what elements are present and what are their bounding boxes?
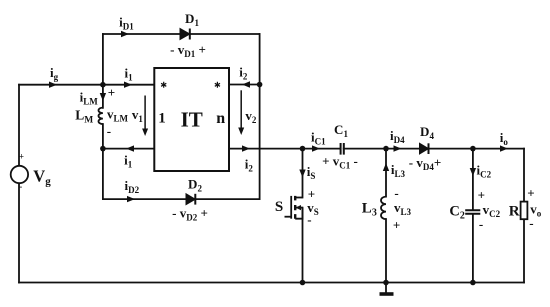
wire C2 branch [472,149,474,283]
node A junction [100,82,106,88]
svg-text:-: - [107,124,111,139]
arrow i2 bottom [242,145,250,151]
diode D2 [186,194,195,205]
source Vg [11,166,28,183]
wire left vertical bottom (Vg to bottom bus) [18,184,20,283]
arrow ig [49,82,57,88]
svg-text:n: n [216,110,225,127]
wire D2 rail [103,198,260,200]
svg-text:1: 1 [158,110,166,126]
arrow iS [299,170,305,178]
arrow iC2 [470,168,476,176]
wire top-left horizontal (ig) [19,84,154,86]
svg-text:-: - [394,186,398,201]
resistor R [521,202,528,220]
node bottom-left junction [100,146,106,152]
inductor LM coil [99,108,103,125]
transistor S (MOSFET) [285,196,303,219]
arrow i1 top [124,82,132,88]
node C2-bottom junction [470,280,476,286]
wire switch branch [302,149,304,283]
wire R branch [523,149,525,283]
arrow iC1 [312,145,320,151]
node switch-bottom junction [300,280,306,286]
wire L3 branch [385,149,387,283]
wire transformer top-right pin [229,84,260,86]
capacitor C2 [465,210,480,214]
wire right vertical x=259.6 [259,34,261,199]
node L3-top junction [383,146,389,152]
diode D1 [180,29,190,40]
wire bottom bus [19,282,524,284]
svg-text:S: S [275,199,283,215]
svg-text:R: R [509,203,520,219]
arrow iD4 [394,145,402,151]
node ground junction [383,280,389,286]
node switch-top junction [300,146,306,152]
arrow v1 [144,96,146,132]
ground [385,283,387,293]
svg-text:-: - [19,182,22,192]
svg-text:+: + [393,218,400,233]
svg-text:+: + [19,152,24,162]
wire transformer bottom-left pin [103,148,154,150]
dot mark secondary [215,82,220,88]
diode D4 [420,143,429,154]
arrow i2 top [242,81,250,87]
inductor L3 coil [381,197,386,220]
arrow io [500,145,508,151]
capacitor C1 [341,143,344,155]
arrow iD1 [121,31,129,37]
svg-text:IT: IT [181,108,203,132]
node top-right junction [257,82,263,88]
node C2-top junction [470,146,476,152]
transformer IT box [154,68,229,171]
svg-text:+: + [108,85,115,100]
svg-text:+: + [527,185,534,200]
wire main output bus [229,148,525,150]
wire left vertical top (Vg to top rail) [18,85,20,166]
dot mark primary [161,82,166,88]
arrow v2 [240,90,242,130]
svg-text:-: - [529,216,533,231]
svg-text:+: + [478,187,485,202]
svg-text:-: - [479,217,483,232]
wire top rail (iD1/D1) [103,33,260,35]
wire center vertical x=103 (node A to D2 rail) [102,34,104,199]
arrow iLM [100,93,106,101]
arrow iD2 [127,196,135,202]
svg-text:-: - [307,212,311,227]
arrow iL3 [383,163,389,171]
svg-text:+: + [308,186,315,201]
arrow i1 bottom [126,145,134,151]
